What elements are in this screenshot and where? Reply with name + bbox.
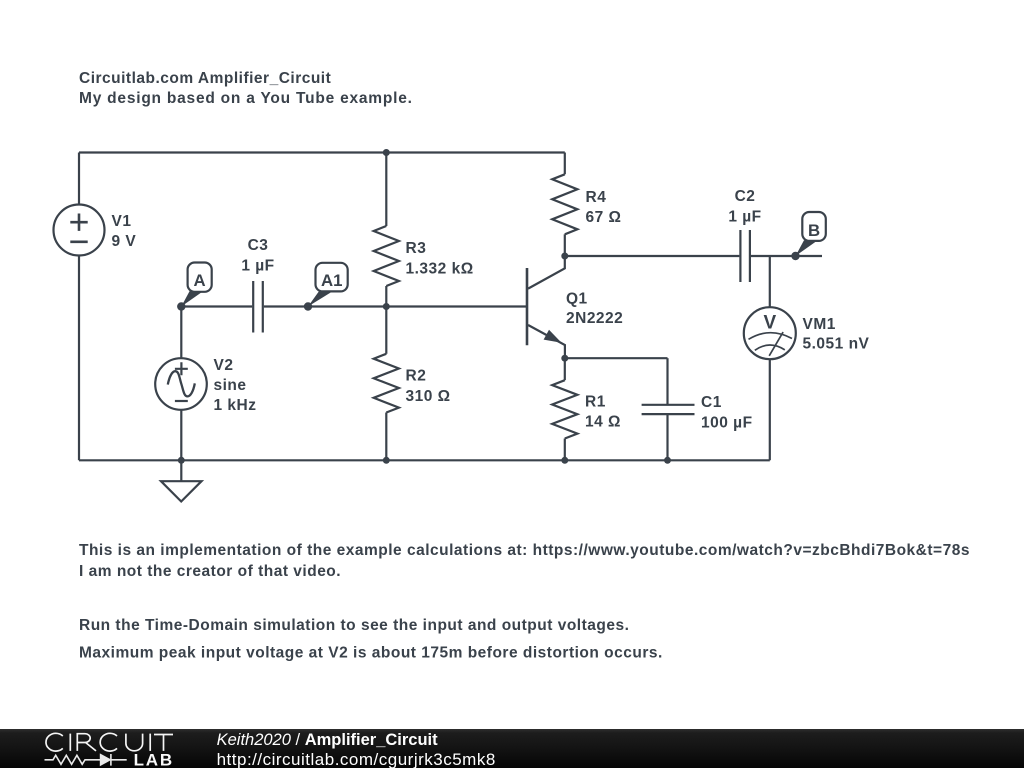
capacitor C1	[642, 405, 695, 414]
svg-text:A1: A1	[321, 271, 342, 290]
resistor R4 wire upper	[564, 153, 566, 175]
label C2 1 uF	[728, 188, 761, 226]
logo CIRCUIT wordmark	[46, 733, 173, 751]
label C1 100 uF	[701, 394, 753, 431]
resistor R3 wire lower	[385, 286, 387, 307]
svg-text:Keith2020 / Amplifier_Circuit: Keith2020 / Amplifier_Circuit	[217, 731, 439, 749]
ground symbol	[161, 481, 202, 501]
resistor R4 wire lower	[564, 234, 566, 256]
label Q1 2N2222	[566, 291, 623, 328]
svg-text:V2: V2	[214, 357, 234, 374]
svg-text:C3: C3	[248, 237, 269, 254]
svg-text:R3: R3	[406, 240, 427, 257]
label R3 1.332 kOhm	[406, 240, 474, 278]
junction node collector	[561, 253, 568, 260]
svg-text:This is an implementation of t: This is an implementation of the example…	[79, 542, 970, 559]
transistor Q1 base bar	[526, 268, 529, 345]
wire top rail	[79, 151, 565, 153]
wire collector rail to C2	[565, 255, 740, 257]
junction node R1 bottom	[561, 457, 568, 464]
svg-text:Q1: Q1	[566, 291, 588, 308]
svg-text:2N2222: 2N2222	[566, 310, 623, 327]
wire left rail upper (V1 to top rail)	[78, 153, 80, 205]
wire emitter row	[565, 357, 668, 359]
svg-text:A: A	[194, 271, 206, 290]
svg-text:B: B	[808, 221, 820, 240]
wire C2 right to open end	[751, 255, 822, 257]
svg-text:9 V: 9 V	[112, 233, 137, 250]
resistor R3	[374, 226, 399, 286]
logo resistor-diode symbol	[45, 754, 127, 766]
capacitor C3	[253, 281, 263, 333]
transistor Q1 collector lead	[528, 256, 565, 289]
svg-text:I am not the creator of that v: I am not the creator of that video.	[79, 563, 341, 580]
voltage source V2 (sine)	[155, 358, 207, 410]
resistor R1	[552, 380, 577, 438]
wire C3 right plate to Q1 base	[264, 305, 527, 307]
junction node R2 bottom	[383, 457, 390, 464]
svg-text:R4: R4	[586, 189, 607, 206]
resistor R3 branch wire upper	[385, 153, 387, 227]
svg-text:67 Ω: 67 Ω	[586, 209, 622, 226]
node flag A1	[308, 263, 348, 307]
wire V2 top stem	[180, 307, 182, 359]
label R1 14 Ohm	[585, 393, 621, 430]
junction node A1 wire	[304, 302, 312, 310]
svg-text:14 Ω: 14 Ω	[585, 414, 621, 431]
capacitor C1 wire lower	[666, 415, 668, 460]
label R4 67 Ohm	[586, 189, 622, 226]
resistor R1 wire lower	[564, 439, 566, 461]
voltmeter VM1 stem upper	[769, 256, 771, 307]
resistor R1 wire upper	[564, 358, 566, 380]
capacitor C1 wire upper	[666, 358, 668, 404]
node flag B	[796, 212, 826, 256]
label V2 sine 1 kHz	[214, 357, 257, 414]
label VM1 5.051 nV	[803, 316, 870, 353]
resistor R2	[374, 354, 399, 413]
wire bottom rail	[79, 459, 770, 461]
label C3 1 uF	[241, 237, 274, 275]
svg-text:V: V	[763, 313, 776, 334]
wire node A to C3 left plate	[181, 305, 252, 307]
resistor R2 wire upper	[385, 307, 387, 354]
svg-text:1 µF: 1 µF	[241, 258, 274, 275]
svg-text:http://circuitlab.com/cgurjrk3: http://circuitlab.com/cgurjrk3c5mk8	[217, 750, 496, 768]
title text	[79, 70, 413, 107]
svg-text:Circuitlab.com Amplifier_Circu: Circuitlab.com Amplifier_Circuit	[79, 70, 331, 87]
node flag A	[181, 263, 211, 307]
svg-text:VM1: VM1	[803, 316, 836, 333]
junction node emitter	[561, 355, 568, 362]
voltage source V1	[54, 205, 105, 256]
svg-text:Maximum peak input voltage at: Maximum peak input voltage at V2 is abou…	[79, 644, 663, 661]
junction node V2/ground	[178, 457, 185, 464]
svg-text:100 µF: 100 µF	[701, 414, 753, 431]
junction node on top rail at R3	[383, 149, 390, 156]
svg-text:5.051 nV: 5.051 nV	[803, 335, 870, 352]
label V1 9 V	[112, 213, 137, 250]
svg-text:310 Ω: 310 Ω	[406, 388, 451, 405]
svg-text:V1: V1	[112, 213, 132, 230]
resistor R4	[552, 174, 577, 234]
svg-text:1 kHz: 1 kHz	[214, 397, 257, 414]
wire left rail lower (V1 to bottom rail)	[78, 256, 80, 461]
junction node A wire	[177, 302, 185, 310]
wire V2 bottom stem	[180, 410, 182, 461]
label R2 310 Ohm	[406, 368, 451, 406]
resistor R2 wire lower	[385, 413, 387, 461]
voltmeter VM1	[744, 307, 796, 359]
svg-text:sine: sine	[214, 377, 247, 394]
junction node R3/R2	[383, 303, 390, 310]
svg-text:Run the Time-Domain simulation: Run the Time-Domain simulation to see th…	[79, 617, 629, 634]
capacitor C2	[740, 230, 750, 282]
svg-text:R1: R1	[585, 393, 606, 410]
note paragraph 2	[79, 617, 663, 661]
svg-text:1.332 kΩ: 1.332 kΩ	[406, 261, 474, 278]
svg-text:C1: C1	[701, 394, 722, 411]
transistor Q1 emitter arrow	[544, 330, 562, 343]
junction node C1 bottom	[664, 457, 671, 464]
svg-text:R2: R2	[406, 368, 427, 385]
svg-text:C2: C2	[735, 188, 756, 205]
transistor Q1 emitter lead	[528, 325, 565, 358]
voltmeter VM1 stem lower	[769, 359, 771, 460]
note paragraph 1	[79, 542, 970, 580]
junction node B wire	[791, 252, 799, 260]
svg-text:My design based on a You Tube: My design based on a You Tube example.	[79, 90, 413, 107]
svg-text:LAB: LAB	[134, 751, 174, 768]
wire ground stem	[180, 460, 182, 481]
svg-text:1 µF: 1 µF	[728, 209, 761, 226]
